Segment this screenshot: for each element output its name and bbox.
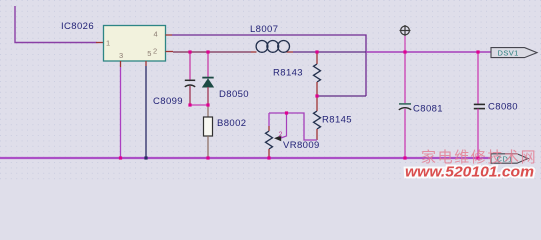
background grid [0, 0, 541, 180]
port DSV1 [491, 48, 537, 58]
resistor R8143 [316, 52, 318, 64]
fuse/component B8002 [207, 105, 209, 117]
capacitor C8099 [189, 52, 191, 80]
svg-text:2: 2 [153, 47, 157, 56]
pin 1 stub [96, 42, 104, 44]
diode D8050 [207, 52, 209, 77]
svg-text:C8081: C8081 [413, 104, 443, 115]
wire R8143 bottom to vertical [317, 95, 366, 97]
pin 4 stub [166, 34, 173, 36]
wire pin3 down [120, 61, 122, 67]
potentiometer VR8009 [268, 113, 270, 126]
svg-text:D8050: D8050 [219, 89, 249, 100]
wire pin2 to coil [173, 51, 251, 53]
svg-text:www.520101.com: www.520101.com [405, 165, 534, 181]
wire R8145 bottom loop to VR node [269, 113, 317, 140]
svg-text:DSV1: DSV1 [498, 48, 519, 57]
svg-text:R8145: R8145 [322, 115, 352, 126]
port CD1 bottom [491, 154, 528, 163]
svg-text:2: 2 [279, 132, 283, 139]
wire pin5 down [145, 61, 147, 66]
wire bottom rail [0, 157, 491, 159]
wire power stem [404, 36, 406, 52]
wire coil to right [293, 51, 366, 53]
inductor L8007 leads [251, 51, 257, 53]
resistor R8145 [316, 96, 318, 111]
svg-text:C8080: C8080 [488, 102, 518, 113]
capacitor C8080 [477, 52, 479, 104]
svg-text:C8099: C8099 [153, 96, 183, 107]
wire top rail pin4 [172, 35, 366, 96]
svg-text:1: 1 [106, 39, 110, 48]
capacitor C8081 [404, 52, 406, 103]
IC IC8026 [104, 26, 166, 62]
power port circle-cross [400, 25, 411, 36]
svg-text:R8143: R8143 [273, 68, 303, 79]
svg-text:3: 3 [119, 51, 123, 60]
svg-text:4: 4 [154, 30, 158, 39]
node junction dots [119, 50, 480, 159]
svg-text:VR8009: VR8009 [283, 140, 320, 151]
svg-text:5: 5 [147, 49, 151, 58]
svg-text:B8002: B8002 [217, 118, 246, 129]
wire C8099/D8050 bottom join [190, 104, 208, 106]
node junction dark [144, 156, 147, 159]
wire input left [15, 6, 97, 43]
wiper wire [281, 113, 287, 138]
watermark url [405, 165, 534, 181]
pin 2 stub [166, 51, 174, 53]
svg-text:IC8026: IC8026 [61, 21, 94, 32]
wire main to DSV1 [366, 51, 491, 53]
svg-text:L8007: L8007 [250, 24, 278, 35]
inductor L8007 [256, 41, 289, 53]
svg-text:家电维修技术网: 家电维修技术网 [421, 149, 537, 166]
